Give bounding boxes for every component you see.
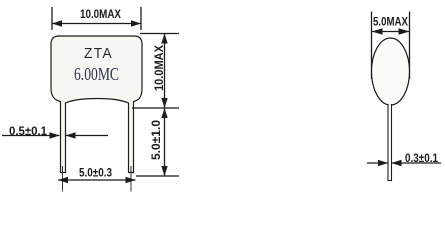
arrowhead left [58, 177, 68, 183]
svg-text:5.0±1.0: 5.0±1.0 [149, 120, 163, 160]
arrowhead down [161, 98, 167, 108]
svg-text:5.0MAX: 5.0MAX [373, 15, 408, 29]
resonator body (side view) ellipse [372, 38, 410, 105]
side view extension line left [371, 12, 373, 80]
dimension line 5.0±1.0 vertical [164, 108, 166, 176]
resonator body (front view) with leads [51, 36, 142, 173]
arrowhead right [126, 177, 136, 183]
arrowhead down [161, 166, 167, 176]
arrowhead up [161, 34, 167, 44]
extension line right (top width dim) [140, 7, 142, 30]
arrowhead right-pointing [50, 132, 60, 138]
svg-text:0.5±0.1: 0.5±0.1 [9, 124, 47, 138]
extension line body top right [140, 33, 179, 35]
dimension 0.3±0.1 leader right [392, 162, 442, 164]
arrowhead left-pointing [392, 160, 402, 166]
dimension line 10.0MAX vertical [164, 34, 166, 109]
extension line left (top width dim) [51, 7, 53, 30]
extension line lead bottom right [136, 175, 179, 177]
arrowhead right [131, 20, 141, 26]
arrowhead left [52, 20, 62, 26]
arrowhead left [372, 28, 383, 34]
arrowhead up [161, 108, 167, 118]
svg-text:5.0±0.3: 5.0±0.3 [79, 166, 112, 180]
svg-text:ZTA: ZTA [84, 45, 113, 62]
side view extension line right [409, 12, 411, 80]
dimension 0.5±0.1 leader right [66, 135, 109, 137]
dimension line 5.0MAX [372, 31, 410, 33]
dimension 0.5±0.1 leader left [2, 135, 60, 137]
extension line body bottom right [132, 107, 179, 109]
svg-text:10.0MAX: 10.0MAX [80, 7, 121, 21]
dimension line 10.0MAX horizontal [52, 23, 141, 25]
dimension line 5.0±0.3 [58, 179, 136, 181]
extension line left lead center [62, 166, 64, 192]
extension line right lead center [130, 166, 132, 192]
arrowhead left-pointing [66, 132, 76, 138]
arrowhead right-pointing [378, 160, 388, 166]
svg-text:10.0MAX: 10.0MAX [152, 45, 166, 91]
svg-text:0.3±0.1: 0.3±0.1 [405, 151, 438, 165]
dimension 0.3±0.1 leader left [367, 162, 388, 164]
side view lead [388, 104, 392, 181]
svg-text:6.00MC: 6.00MC [74, 64, 119, 84]
arrowhead right [399, 28, 410, 34]
